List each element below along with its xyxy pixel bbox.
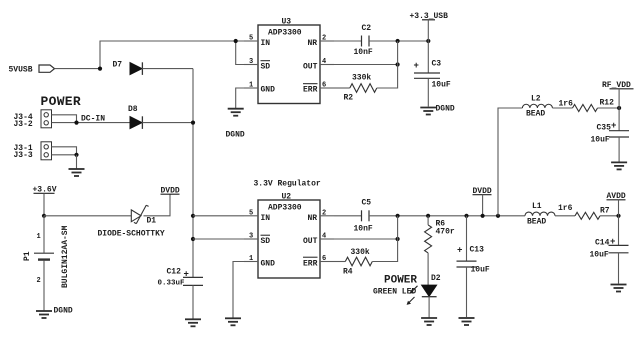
svg-text:3.3V Regulator: 3.3V Regulator bbox=[254, 180, 321, 189]
ground C14 bbox=[611, 285, 627, 292]
svg-text:IN: IN bbox=[261, 39, 271, 48]
resistor R2 330k bbox=[344, 74, 377, 103]
wire ERR to R4 bbox=[334, 261, 345, 263]
resistor R12 1r6 bbox=[559, 98, 615, 111]
svg-text:ERR: ERR bbox=[303, 86, 318, 95]
svg-text:+: + bbox=[414, 61, 419, 71]
wire battery to D1 bbox=[44, 215, 131, 217]
svg-text:D1: D1 bbox=[147, 217, 157, 226]
svg-text:2: 2 bbox=[322, 209, 326, 217]
node junction C2/R2 vertical bbox=[396, 39, 400, 43]
svg-text:330k: 330k bbox=[352, 74, 371, 83]
svg-text:4: 4 bbox=[322, 58, 326, 66]
svg-text:C35: C35 bbox=[597, 123, 612, 132]
svg-text:10uF: 10uF bbox=[590, 251, 609, 260]
diode D1 schottky bbox=[131, 205, 156, 225]
wire OUT row U3 bbox=[334, 64, 398, 66]
wire DC-IN pins bbox=[52, 115, 77, 123]
svg-text:5: 5 bbox=[249, 209, 253, 217]
svg-text:10nF: 10nF bbox=[354, 225, 373, 234]
resistor R7 1r6 bbox=[558, 204, 610, 219]
svg-text:GND: GND bbox=[261, 86, 276, 95]
svg-text:D8: D8 bbox=[128, 105, 138, 114]
svg-text:+: + bbox=[611, 121, 616, 131]
svg-text:L2: L2 bbox=[531, 94, 541, 103]
svg-text:3: 3 bbox=[249, 58, 253, 66]
svg-text:IN: IN bbox=[261, 214, 271, 223]
op-amp U3 ADP3300 bbox=[244, 18, 334, 104]
ground U3 DGND bbox=[226, 109, 245, 140]
svg-text:BEAD: BEAD bbox=[527, 217, 546, 226]
node junction RF_VDD bbox=[617, 106, 621, 110]
wire main vertical D7/D8 to C12 bbox=[192, 69, 194, 278]
node junction D8/vertical bbox=[191, 121, 195, 125]
svg-text:D7: D7 bbox=[113, 60, 123, 69]
node junction DC-IN bbox=[74, 121, 78, 125]
wire to U2 IN bbox=[193, 215, 244, 217]
capacitor C2 bbox=[354, 24, 373, 57]
svg-text:1r6: 1r6 bbox=[559, 100, 574, 109]
svg-text:2: 2 bbox=[37, 277, 41, 285]
svg-text:+: + bbox=[184, 269, 189, 279]
svg-text:10uF: 10uF bbox=[432, 81, 451, 90]
svg-text:POWER: POWER bbox=[384, 275, 417, 287]
wire ERR to R2 bbox=[334, 87, 350, 89]
svg-text:U3: U3 bbox=[282, 18, 292, 27]
wire R4 up to OUT/NR bbox=[372, 216, 397, 262]
wire IN-SD tie U3 bbox=[236, 41, 244, 65]
svg-text:1: 1 bbox=[37, 233, 41, 241]
capacitor C3 bbox=[414, 41, 451, 107]
node junction J3 lower bbox=[74, 153, 78, 157]
svg-text:10uF: 10uF bbox=[591, 135, 610, 144]
capacitor C35 bbox=[591, 108, 630, 162]
ground battery DGND bbox=[36, 307, 73, 319]
node junction L2 branch bbox=[496, 214, 500, 218]
svg-text:J3-3: J3-3 bbox=[14, 151, 33, 160]
svg-text:330k: 330k bbox=[351, 248, 370, 257]
svg-text:+: + bbox=[457, 246, 462, 256]
svg-text:L1: L1 bbox=[532, 202, 542, 211]
svg-text:DGND: DGND bbox=[226, 131, 245, 140]
wire D7 cathode bbox=[142, 68, 193, 70]
wire D8 cathode bbox=[142, 122, 193, 124]
svg-text:R2: R2 bbox=[344, 94, 354, 103]
svg-text:5VUSB: 5VUSB bbox=[9, 65, 33, 74]
wire C5 to rail bbox=[369, 215, 525, 217]
ground C3 DGND bbox=[420, 105, 455, 115]
node junction +3.3_USB bbox=[426, 39, 430, 43]
svg-text:BULGIN12AA-SM: BULGIN12AA-SM bbox=[61, 225, 70, 288]
svg-text:4: 4 bbox=[322, 233, 326, 241]
resistor R6 470r bbox=[425, 216, 455, 253]
svg-text:DGND: DGND bbox=[54, 307, 73, 316]
connector J3 DC-IN bbox=[41, 110, 52, 128]
wire to U2 SD bbox=[193, 238, 244, 240]
svg-text:R7: R7 bbox=[600, 206, 610, 215]
svg-text:P1: P1 bbox=[23, 251, 32, 261]
svg-text:SD: SD bbox=[261, 63, 271, 72]
resistor R4 330k bbox=[343, 248, 372, 277]
connector 5VUSB bbox=[9, 65, 55, 74]
wire U2 GND to ground bbox=[233, 262, 244, 318]
svg-text:3: 3 bbox=[249, 233, 253, 241]
svg-text:OUT: OUT bbox=[303, 63, 318, 72]
node junction vertical/U2 IN bbox=[191, 214, 195, 218]
svg-text:+: + bbox=[610, 237, 615, 247]
svg-text:J3-2: J3-2 bbox=[14, 120, 33, 129]
node junction vertical/U2 SD bbox=[191, 237, 195, 241]
svg-text:GND: GND bbox=[261, 260, 276, 269]
ground U2 bbox=[225, 318, 241, 325]
wire R6 to D2 bbox=[427, 253, 429, 285]
power +3.6V bbox=[33, 186, 57, 216]
wire U3 GND to ground bbox=[236, 88, 244, 108]
node junction OUT U2 bbox=[396, 237, 400, 241]
svg-text:OUT: OUT bbox=[303, 237, 318, 246]
svg-text:5: 5 bbox=[249, 35, 253, 43]
wire to ground bbox=[76, 155, 78, 169]
svg-text:R4: R4 bbox=[343, 268, 353, 277]
svg-text:R12: R12 bbox=[600, 98, 615, 107]
svg-text:DGND: DGND bbox=[436, 105, 455, 114]
svg-text:NR: NR bbox=[308, 39, 318, 48]
node junction AVDD bbox=[616, 214, 620, 218]
ground C35 bbox=[611, 162, 627, 169]
svg-text:DIODE-SCHOTTKY: DIODE-SCHOTTKY bbox=[98, 230, 165, 239]
wire R12 to node bbox=[598, 107, 620, 109]
capacitor C12 bbox=[158, 267, 204, 318]
capacitor C5 bbox=[354, 199, 373, 234]
svg-text:470r: 470r bbox=[436, 227, 455, 236]
power +3.3_USB bbox=[410, 12, 449, 41]
ground J3 bbox=[69, 169, 85, 176]
ground C13 bbox=[459, 318, 475, 325]
inductor L1 BEAD bbox=[525, 202, 555, 226]
svg-text:C13: C13 bbox=[470, 246, 485, 255]
ground C12 bbox=[185, 319, 201, 326]
node junction OUT U3 bbox=[396, 62, 400, 66]
node junction R6 bbox=[426, 214, 430, 218]
svg-text:ERR: ERR bbox=[303, 260, 318, 269]
svg-text:0.33uF: 0.33uF bbox=[158, 280, 186, 288]
wire R7 to node bbox=[600, 215, 619, 217]
LED D2 bbox=[407, 274, 441, 305]
capacitor C13 bbox=[457, 216, 490, 317]
node junction 5VUSB bbox=[98, 67, 102, 71]
battery P1 bbox=[23, 216, 70, 311]
svg-text:DC-IN: DC-IN bbox=[81, 115, 105, 124]
svg-text:1r6: 1r6 bbox=[558, 204, 573, 213]
node junction battery bbox=[42, 214, 46, 218]
wire D1 cathode up to DVDD bbox=[144, 195, 171, 216]
connector J3 lower bbox=[41, 142, 52, 160]
svg-text:10nF: 10nF bbox=[354, 48, 373, 57]
svg-text:NR: NR bbox=[308, 214, 318, 223]
capacitor C14 bbox=[590, 216, 629, 284]
svg-text:C3: C3 bbox=[432, 60, 442, 69]
svg-text:10uF: 10uF bbox=[471, 266, 490, 275]
wire 5VUSB to node bbox=[55, 68, 101, 70]
wire D2 to ground bbox=[428, 297, 430, 318]
svg-text:6: 6 bbox=[322, 255, 326, 263]
wire L1 to R7 bbox=[555, 215, 575, 217]
svg-text:6: 6 bbox=[322, 82, 326, 90]
node junction DVDD bbox=[481, 214, 485, 218]
wire node up to U3 IN row bbox=[100, 41, 244, 69]
ground D2 bbox=[421, 318, 437, 325]
wire NR to C5 bbox=[334, 215, 362, 217]
node junction IN/SD U3 bbox=[234, 39, 238, 43]
svg-text:ADP3300: ADP3300 bbox=[268, 29, 302, 38]
svg-text:1: 1 bbox=[249, 255, 253, 263]
power AVDD bbox=[607, 192, 626, 216]
diode D8 bbox=[128, 105, 142, 129]
op-amp U2 ADP3300 bbox=[244, 193, 334, 279]
svg-text:SD: SD bbox=[261, 237, 271, 246]
wire OUT row U2 bbox=[334, 238, 398, 240]
wire R2 up to OUT/NR bbox=[377, 41, 398, 88]
svg-text:C14: C14 bbox=[595, 238, 610, 247]
wire C2 to node bbox=[369, 40, 428, 42]
power RF_VDD bbox=[602, 81, 634, 108]
svg-text:D2: D2 bbox=[431, 274, 441, 283]
svg-text:U2: U2 bbox=[282, 193, 292, 202]
wire L2 to R12 bbox=[552, 107, 572, 109]
power DVDD left bbox=[161, 186, 180, 195]
svg-text:BEAD: BEAD bbox=[526, 110, 545, 119]
wire up to L2 row bbox=[498, 108, 522, 216]
svg-text:GREEN LED: GREEN LED bbox=[373, 288, 416, 297]
svg-text:C12: C12 bbox=[167, 267, 182, 276]
node junction C5/R4 vertical bbox=[396, 214, 400, 218]
power DVDD right bbox=[473, 187, 492, 216]
svg-text:C2: C2 bbox=[362, 24, 372, 33]
svg-text:POWER: POWER bbox=[41, 94, 82, 109]
svg-text:2: 2 bbox=[322, 35, 326, 43]
node junction C13 bbox=[464, 214, 468, 218]
wire J3 lower pins bbox=[52, 147, 77, 155]
svg-text:C5: C5 bbox=[362, 199, 372, 208]
svg-text:1: 1 bbox=[249, 82, 253, 90]
inductor L2 BEAD bbox=[522, 94, 552, 118]
wire NR to C2 bbox=[334, 40, 362, 42]
svg-text:ADP3300: ADP3300 bbox=[268, 204, 302, 213]
diode D7 bbox=[113, 60, 143, 75]
